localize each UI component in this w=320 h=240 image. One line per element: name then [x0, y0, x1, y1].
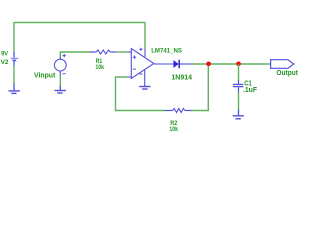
svg-text:10k: 10k [169, 126, 178, 133]
wire C1 to ground [238, 93, 240, 110]
wire output net [192, 63, 271, 65]
wire V2 to ground [13, 66, 15, 85]
diode D1 1N914 [154, 60, 193, 68]
node junction at feedback [206, 61, 211, 66]
voltage source Vinput [54, 54, 66, 76]
ground below Vinput [55, 86, 66, 93]
wire feedback bottom left [115, 110, 165, 112]
wire Vinput up and right to R1 [60, 52, 90, 57]
voltage source V2 [11, 52, 19, 66]
node junction at C1 [236, 61, 241, 66]
resistor R1 [90, 50, 116, 54]
output port flag [271, 60, 294, 69]
wire op-amp V+ to top rail [144, 22, 146, 49]
svg-text:V2: V2 [1, 59, 9, 66]
wire C1 top [238, 64, 240, 81]
wire V2 top drop [13, 22, 15, 52]
ground below C1 [233, 110, 244, 119]
svg-text:.1uF: .1uF [243, 87, 258, 94]
svg-text:Vinput: Vinput [34, 72, 56, 79]
svg-text:10k: 10k [95, 64, 104, 71]
svg-text:1N914: 1N914 [171, 74, 192, 81]
wire R2 to output node [192, 64, 209, 111]
svg-text:LM741_NS: LM741_NS [151, 47, 182, 54]
op-amp U1 LM741 [128, 48, 154, 86]
wire top rail [14, 22, 145, 24]
ground below V2 [9, 84, 20, 94]
wire R1 to op-amp plus input [116, 51, 128, 53]
wire Vinput to ground [59, 75, 61, 87]
svg-text:Output: Output [276, 70, 298, 77]
svg-text:9V: 9V [1, 51, 8, 58]
capacitor C1 [233, 80, 244, 93]
resistor R2 [165, 109, 192, 113]
ground below op-amp [139, 87, 150, 90]
wire feedback from minus input [116, 77, 128, 111]
